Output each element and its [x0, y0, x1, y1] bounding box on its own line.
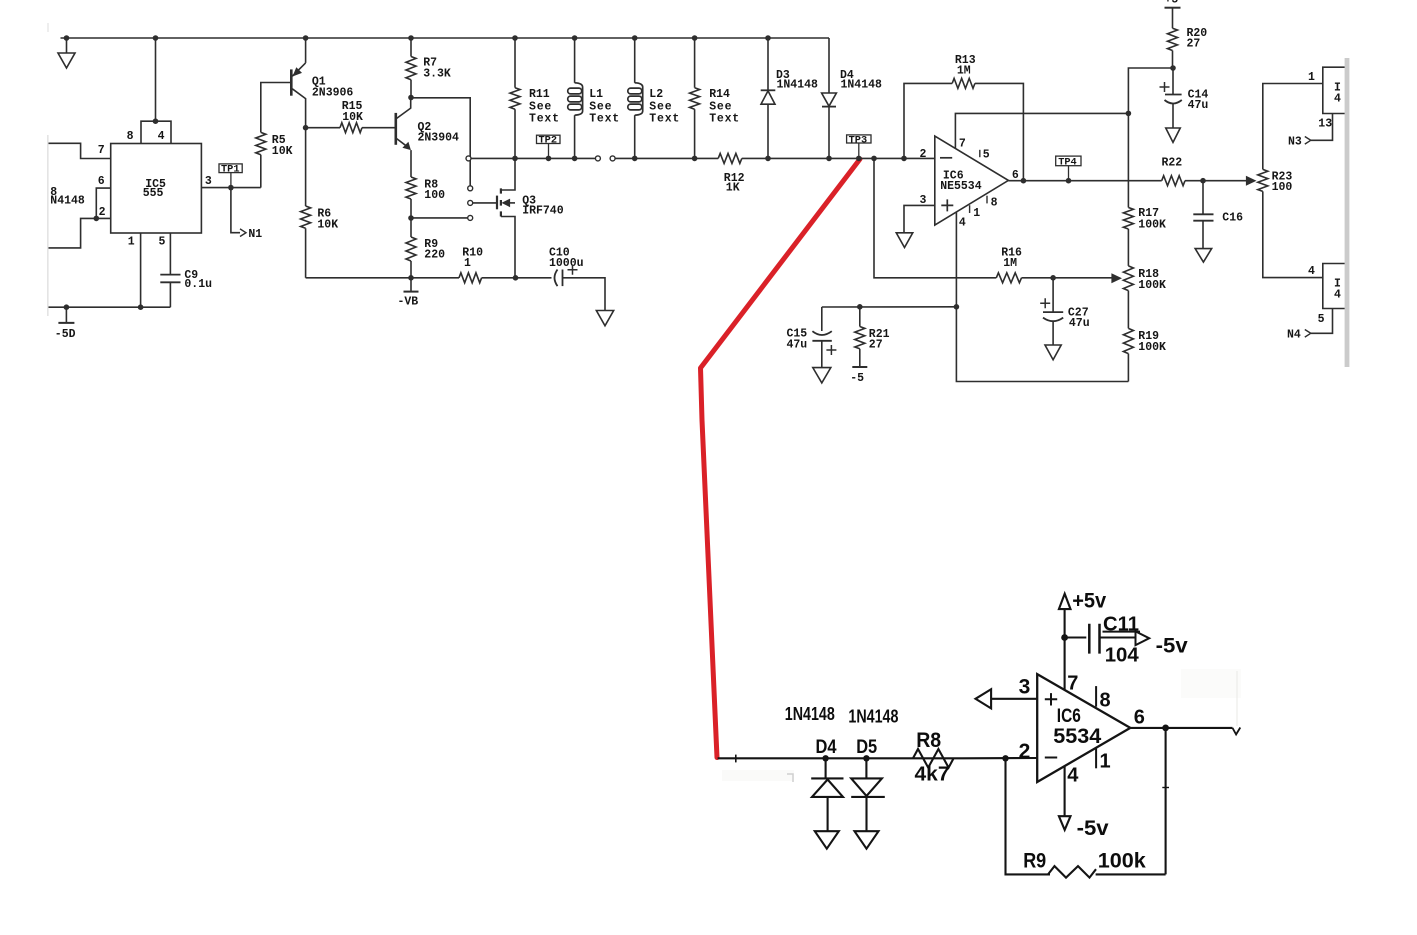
IC5 pin 1 wire [140, 233, 142, 307]
svg-text:1N4148: 1N4148 [777, 78, 819, 91]
diode D4 1N4148 [828, 38, 830, 93]
svg-text:R14: R14 [709, 88, 730, 101]
svg-text:2: 2 [1019, 740, 1031, 763]
svg-text:1: 1 [128, 235, 135, 248]
trimmer R18 [1123, 266, 1133, 291]
svg-text:IRF740: IRF740 [522, 205, 564, 218]
IC5 pin 8-4 bracket [141, 121, 171, 143]
svg-text:5: 5 [159, 235, 166, 248]
svg-text:N4: N4 [1287, 329, 1301, 342]
svg-text:4: 4 [1067, 765, 1079, 787]
svg-text:7: 7 [959, 137, 966, 150]
svg-text:220: 220 [424, 249, 445, 262]
node N4 [1311, 309, 1333, 334]
testpoint TP1 [219, 164, 242, 173]
junction top-left [64, 35, 70, 41]
junction pin2 node [1002, 755, 1008, 761]
resistor R15 [306, 127, 340, 129]
svg-text:L1: L1 [589, 88, 603, 101]
resistor R19 [1123, 328, 1133, 353]
svg-text:555: 555 [143, 187, 164, 200]
svg-text:100k: 100k [1098, 849, 1146, 873]
resistor R13 feedback [904, 83, 952, 158]
svg-text:1N4148: 1N4148 [785, 704, 835, 724]
svg-text:10K: 10K [272, 145, 293, 158]
svg-text:2N3904: 2N3904 [418, 132, 460, 145]
svg-text:L2: L2 [649, 88, 663, 101]
svg-text:1N4148: 1N4148 [841, 78, 883, 91]
resistor R10 [459, 273, 482, 283]
svg-text:27: 27 [1187, 38, 1201, 51]
capacitor C16 [1202, 181, 1204, 215]
op-amp IC6 NE5534 [935, 136, 1009, 225]
svg-text:8: 8 [1100, 690, 1111, 712]
jumper terminal J2 [468, 186, 473, 191]
svg-text:4: 4 [959, 217, 966, 230]
resistor R22 [1162, 176, 1185, 186]
svg-text:47u: 47u [1188, 99, 1209, 112]
top power rail [61, 37, 830, 39]
svg-text:See: See [709, 100, 732, 113]
wire Q2 collector to jumper [411, 98, 470, 186]
resistor R21 [859, 307, 861, 327]
svg-text:13: 13 [1318, 117, 1332, 130]
svg-text:R8: R8 [916, 729, 941, 752]
svg-text:+5v: +5v [1072, 590, 1106, 613]
svg-text:10K: 10K [342, 111, 363, 124]
svg-text:3: 3 [1019, 676, 1031, 699]
svg-text:100: 100 [424, 189, 445, 202]
svg-text:1M: 1M [1003, 257, 1017, 270]
capacitor C10 [516, 277, 552, 279]
transistor Q3 IRF740 [496, 196, 498, 210]
svg-text:100K: 100K [1138, 219, 1166, 232]
middle rail segment B [615, 157, 718, 159]
inductor L2 [634, 38, 636, 83]
svg-text:Text: Text [589, 113, 620, 126]
svg-text:100K: 100K [1138, 341, 1166, 354]
svg-text:1: 1 [1308, 71, 1315, 84]
ground C10 [596, 311, 613, 326]
svg-text:27: 27 [869, 339, 883, 352]
resistor R6 [305, 128, 307, 206]
svg-text:4k7: 4k7 [915, 764, 950, 786]
svg-text:10K: 10K [317, 219, 338, 232]
svg-text:-5v: -5v [1077, 817, 1109, 840]
svg-text:Text: Text [649, 113, 680, 126]
ground -VB [408, 275, 414, 281]
jumper terminal J1 [466, 156, 471, 161]
IC6 pin4 wire [956, 212, 1128, 382]
capacitor C14 [1172, 68, 1174, 95]
IC6 pin7 supply wire [955, 113, 1128, 148]
svg-text:100K: 100K [1138, 279, 1166, 292]
svg-text:6: 6 [1134, 707, 1145, 729]
pin7 +5v supply [1064, 609, 1066, 690]
lower input wire [718, 757, 962, 759]
svg-text:7: 7 [98, 144, 105, 157]
IC5 supply wire [155, 38, 157, 121]
middle rail segment A [471, 157, 595, 159]
trimmer R23 [1246, 176, 1257, 186]
svg-text:1N4148: 1N4148 [848, 707, 898, 727]
wire R23 to connector pin4 [1263, 191, 1323, 277]
svg-text:-5D: -5D [55, 328, 76, 341]
svg-text:+5: +5 [1165, 0, 1179, 7]
IC5 lower rail [49, 306, 171, 308]
svg-text:3.3K: 3.3K [423, 68, 451, 81]
resistor R5 [260, 155, 262, 188]
svg-text:1M: 1M [957, 64, 971, 77]
svg-text:D5: D5 [856, 736, 877, 758]
svg-text:Text: Text [529, 113, 560, 126]
resistor R8 [406, 177, 416, 199]
svg-text:1000u: 1000u [549, 257, 584, 270]
svg-text:6: 6 [98, 175, 105, 188]
testpoint TP3 [847, 135, 871, 143]
resistor R8 lower [913, 749, 954, 768]
svg-text:-5: -5 [850, 372, 864, 385]
open terminal pair [595, 156, 600, 161]
scan edge artifacts [47, 135, 48, 316]
diode D4 lower [822, 755, 828, 761]
svg-text:104: 104 [1105, 644, 1140, 667]
resistor R17 [1123, 208, 1133, 229]
capacitor C9 [169, 233, 171, 275]
IC6 output wire [1008, 180, 1161, 182]
svg-text:1: 1 [973, 207, 980, 220]
svg-text:N4148: N4148 [50, 195, 85, 208]
svg-text:See: See [529, 100, 552, 113]
ground top-left [66, 38, 68, 53]
svg-text:N1: N1 [248, 228, 262, 241]
svg-text:7: 7 [1067, 673, 1078, 695]
capacitor C15 [821, 307, 823, 331]
pin1 tick [1095, 748, 1097, 769]
jumper terminal J4 [468, 215, 473, 220]
svg-text:0.1u: 0.1u [184, 278, 212, 291]
testpoint TP4 [1056, 156, 1081, 166]
svg-text:-5v: -5v [1156, 635, 1188, 658]
svg-text:TP4: TP4 [1058, 156, 1077, 168]
transistor Q2 2N3904 [394, 113, 397, 145]
op-amp IC6 5534 lower [1037, 674, 1130, 782]
IC5 pin 3 wire [201, 187, 260, 189]
resistor R7 [410, 38, 412, 57]
svg-text:4: 4 [158, 130, 165, 143]
svg-text:1: 1 [1100, 751, 1111, 773]
svg-text:R22: R22 [1162, 157, 1183, 170]
svg-text:2N3906: 2N3906 [312, 86, 354, 99]
inductor L1 [574, 38, 576, 83]
svg-text:5: 5 [1318, 313, 1325, 326]
svg-text:TP2: TP2 [539, 135, 558, 147]
svg-text:8: 8 [127, 130, 134, 143]
svg-text:5534: 5534 [1053, 724, 1101, 748]
svg-text:See: See [649, 100, 672, 113]
C15 R21 rail [822, 306, 957, 308]
svg-text:4: 4 [1334, 289, 1341, 302]
connector IC bottom [1323, 264, 1347, 309]
svg-text:1: 1 [464, 257, 471, 270]
feedback wire R9 lower [1165, 728, 1167, 875]
IC5 pin 7 wire [49, 143, 111, 158]
resistor R9 [410, 218, 412, 237]
capacitor C11 [1061, 634, 1068, 641]
pin8 tick [1095, 686, 1097, 707]
pin3 input arrow [991, 698, 1037, 700]
svg-text:1K: 1K [726, 182, 740, 195]
diode D3 1N4148 [767, 38, 769, 90]
svg-text:C16: C16 [1222, 212, 1243, 225]
svg-text:2: 2 [99, 206, 106, 219]
IC6 pin3 ground wire [904, 205, 935, 232]
resistor R20 [1172, 8, 1174, 29]
connector IC top [1323, 67, 1347, 113]
resistor R11 [514, 38, 516, 88]
jumper terminal J3 [468, 200, 473, 205]
testpoint TP2 [537, 135, 561, 143]
IC5 pin 2 wire [49, 218, 111, 248]
svg-text:4: 4 [1308, 265, 1315, 278]
wire R23 to connector pin1 [1263, 84, 1323, 170]
wire R20 to pin7 node [1128, 68, 1173, 208]
svg-text:100: 100 [1272, 181, 1293, 194]
svg-text:TP3: TP3 [849, 134, 868, 146]
capacitor C27 [1052, 278, 1054, 312]
node N3 [1311, 114, 1333, 141]
resistor R16 [874, 158, 996, 277]
resistor R14 [694, 38, 696, 88]
-VB rail [306, 277, 459, 279]
svg-text:47u: 47u [1069, 317, 1090, 330]
svg-text:R9: R9 [1023, 849, 1046, 873]
IC5 pin 6 wire [96, 188, 110, 218]
transistor Q1 2N3906 [305, 38, 307, 63]
scan edge strip right [1345, 58, 1350, 367]
op IC5 555 body [111, 144, 202, 234]
svg-text:6: 6 [1012, 169, 1019, 182]
svg-text:3: 3 [205, 175, 212, 188]
svg-text:47u: 47u [787, 339, 808, 352]
diode D5 lower [863, 755, 869, 761]
resistor R12 [718, 153, 742, 163]
svg-text:Text: Text [709, 113, 740, 126]
svg-text:5: 5 [983, 149, 990, 162]
svg-text:2: 2 [920, 148, 927, 161]
node N1 [231, 188, 240, 233]
svg-text:-VB: -VB [398, 296, 419, 309]
svg-text:R11: R11 [529, 88, 550, 101]
middle rail segment C [742, 157, 935, 159]
svg-text:See: See [589, 100, 612, 113]
svg-text:D4: D4 [816, 736, 837, 758]
ground -5D [64, 304, 70, 310]
svg-text:N3: N3 [1288, 136, 1302, 149]
svg-text:8: 8 [991, 197, 998, 210]
svg-text:4: 4 [1334, 93, 1341, 106]
red highlight wire TP3 to lower circuit [701, 159, 861, 758]
svg-text:NE5534: NE5534 [940, 180, 982, 193]
